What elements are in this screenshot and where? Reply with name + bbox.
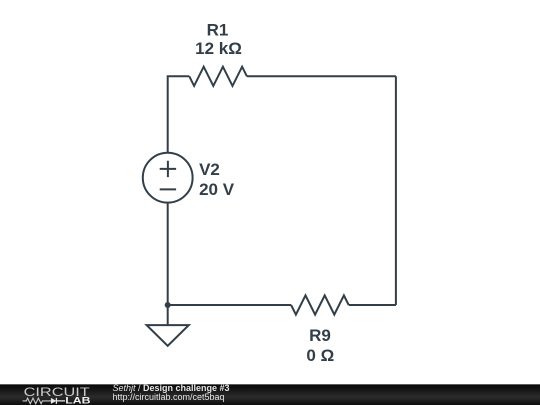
logo resistor squiggle [23, 398, 51, 404]
voltage source V2 circle [143, 153, 193, 203]
svg-text:0 Ω: 0 Ω [306, 346, 334, 365]
wire: top-left segment from V2 top lead up and right to R1 left terminal [168, 76, 190, 153]
V2 minus sign [160, 188, 176, 190]
wire: bottom-left segment from junction node to R9 left terminal [168, 304, 291, 306]
junction node dot [165, 302, 171, 308]
svg-text:12 kΩ: 12 kΩ [195, 39, 242, 58]
logo diode [51, 398, 57, 404]
footer black bar [0, 384, 540, 405]
footer credit text [110, 384, 540, 405]
CircuitLab logo [0, 384, 110, 405]
svg-text:V2: V2 [199, 160, 220, 179]
resistor R1 (zigzag body) [189, 67, 247, 86]
wire: right side vertical [395, 76, 397, 305]
svg-text:http://circuitlab.com/cet5baq: http://circuitlab.com/cet5baq [113, 392, 225, 402]
svg-text:R9: R9 [309, 326, 331, 345]
wire: V2 bottom lead down to junction node [167, 203, 169, 305]
V2 plus sign [160, 161, 176, 177]
svg-text:R1: R1 [207, 21, 229, 40]
svg-text:20 V: 20 V [199, 180, 235, 199]
wire: bottom-right segment from corner to R9 right terminal [349, 304, 396, 306]
ground stub wire [167, 305, 169, 325]
ground triangle symbol [147, 325, 189, 346]
wire: top-right segment from R1 right terminal to top-right corner [247, 75, 396, 77]
resistor R9 (zigzag body) [291, 295, 349, 314]
svg-text:LAB: LAB [65, 396, 90, 405]
